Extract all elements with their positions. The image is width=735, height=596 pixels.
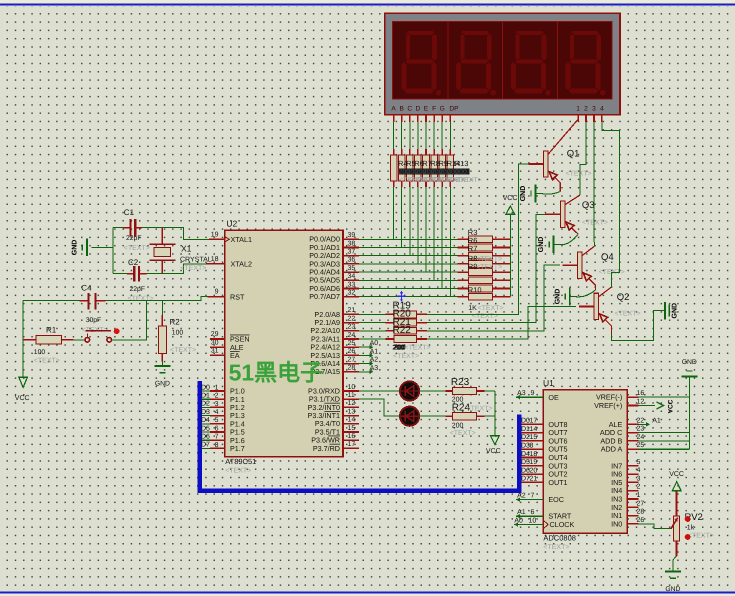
svg-text:12: 12 xyxy=(348,400,356,407)
R2 labels xyxy=(170,318,197,355)
wire segment A to resistor xyxy=(393,122,395,149)
wire C2 to XTAL2 xyxy=(146,264,206,274)
svg-text:D0: D0 xyxy=(201,384,210,391)
ground (Q2) xyxy=(665,302,679,320)
crystal X1 xyxy=(150,228,176,274)
svg-text:AT89C51: AT89C51 xyxy=(225,457,256,466)
XTAL1 clock marker xyxy=(225,237,229,242)
svg-text:200: 200 xyxy=(452,422,464,429)
svg-text:C: C xyxy=(407,106,412,113)
ground (Q4) xyxy=(554,288,570,306)
svg-text:A3: A3 xyxy=(517,390,526,397)
wire P0.5 row xyxy=(359,279,458,281)
svg-text:30pF: 30pF xyxy=(86,317,102,324)
svg-text:17: 17 xyxy=(348,441,356,448)
svg-text:A0: A0 xyxy=(514,518,523,525)
resistor R6 xyxy=(407,149,414,187)
wire P2.1 row xyxy=(359,322,386,324)
U1 pin stubs left xyxy=(522,424,544,482)
R19-R22 values 200 (overlapping) xyxy=(392,345,430,360)
resistor R5 pull-up xyxy=(458,277,511,284)
svg-text:<TEXT>: <TEXT> xyxy=(566,170,592,177)
resistor R8 xyxy=(423,149,430,187)
digit separator xyxy=(502,21,504,99)
svg-text:A: A xyxy=(391,106,396,113)
U2 pin numbers xyxy=(211,232,356,449)
svg-text:100: 100 xyxy=(34,349,46,356)
svg-text:VCC: VCC xyxy=(15,395,30,402)
wire P0.1 row xyxy=(359,247,458,249)
resistor R9 xyxy=(431,149,438,187)
svg-text:11: 11 xyxy=(348,392,355,399)
svg-text:U2: U2 xyxy=(226,219,237,229)
svg-text:D1: D1 xyxy=(201,393,210,400)
power VCC (RV2) xyxy=(669,471,684,491)
svg-text:D6: D6 xyxy=(201,434,210,441)
svg-text:<TEXT>: <TEXT> xyxy=(393,353,419,360)
svg-text:30: 30 xyxy=(211,339,219,346)
svg-text:OE: OE xyxy=(548,393,559,402)
svg-text:38: 38 xyxy=(348,240,356,247)
button state dot xyxy=(114,328,120,334)
U2 left pin stubs xyxy=(202,239,225,448)
resistor R3 pull-up xyxy=(458,236,511,243)
wire P0.0 row xyxy=(359,238,458,240)
VCC rail for pull-ups xyxy=(509,214,511,296)
svg-text:VCC: VCC xyxy=(486,448,501,455)
wire resistor column 4 to P0.3 row xyxy=(417,187,419,264)
svg-text:VREF(+): VREF(+) xyxy=(594,401,622,410)
svg-text:24: 24 xyxy=(637,434,645,441)
svg-text:<TEXT>: <TEXT> xyxy=(180,265,206,272)
ground (VREF) xyxy=(681,359,697,377)
wire Q2 emitter to ground xyxy=(612,311,665,341)
7-segment display panel xyxy=(393,21,613,99)
svg-text:22pF: 22pF xyxy=(126,235,142,242)
wire P3.0 to LED1 xyxy=(359,390,400,392)
svg-text:Q2: Q2 xyxy=(617,292,630,303)
bus entry labels U2 side xyxy=(201,384,210,448)
svg-text:GND: GND xyxy=(665,586,680,593)
svg-text:D4: D4 xyxy=(201,417,210,424)
svg-text:Q4: Q4 xyxy=(601,252,614,263)
svg-text:9: 9 xyxy=(531,390,535,397)
Q2 labels xyxy=(615,292,641,318)
svg-text:7: 7 xyxy=(531,493,535,500)
svg-text:U1: U1 xyxy=(543,378,554,388)
svg-text:<TEXT>: <TEXT> xyxy=(467,405,493,412)
svg-text:G: G xyxy=(440,106,445,113)
resistor R6 pull-up xyxy=(458,244,511,251)
svg-text:35: 35 xyxy=(348,265,356,272)
wire digit2 to Q3 collector xyxy=(580,122,586,195)
R19-R22 labels xyxy=(393,300,412,336)
resistor R24 xyxy=(445,413,484,420)
svg-text:D2: D2 xyxy=(201,401,210,408)
svg-text:26: 26 xyxy=(348,348,356,355)
svg-text:<TEXT>: <TEXT> xyxy=(582,219,608,226)
push button xyxy=(85,331,111,343)
wire VCC to C4/RST rail xyxy=(23,300,79,302)
wire resistor column 3 to P0.2 row xyxy=(409,187,411,256)
svg-text:VCC: VCC xyxy=(669,471,684,478)
wire R24 to VCC rail xyxy=(484,415,495,417)
resistor network TEXT placeholders (overlapping) xyxy=(399,177,482,184)
wire C1 to XTAL1 xyxy=(142,228,209,240)
LED D2 xyxy=(400,407,419,426)
resistor R19 xyxy=(386,311,428,318)
svg-text:<TEXT>: <TEXT> xyxy=(478,305,504,312)
svg-text:51黑电子: 51黑电子 xyxy=(229,360,324,386)
resistor network labels R4-R13 (overlapping) xyxy=(398,159,468,168)
svg-text:A1: A1 xyxy=(517,509,526,516)
wire Q3 emitter to ground xyxy=(554,234,579,245)
capacitor C1 xyxy=(123,219,142,237)
digit 4 segments xyxy=(565,30,605,95)
svg-text:14: 14 xyxy=(348,417,356,424)
wire P2.2 row xyxy=(359,330,386,332)
wire P2.5 net label xyxy=(359,354,370,356)
svg-text:<TEXT>: <TEXT> xyxy=(450,430,476,437)
svg-text:R13: R13 xyxy=(455,159,469,168)
IC U2 AT89C51 xyxy=(225,230,343,456)
U1 clock marker xyxy=(543,520,548,528)
display digit pins xyxy=(578,115,602,122)
pull-up labels xyxy=(468,228,504,320)
7-segment display DS1 bezel xyxy=(385,13,620,115)
svg-text:Q3: Q3 xyxy=(582,200,595,211)
potentiometer RV2 xyxy=(671,491,680,556)
wire C1-C2 junction xyxy=(112,228,114,274)
svg-text:22: 22 xyxy=(348,315,356,322)
resistor R23 xyxy=(445,387,484,394)
wire R22 to Q2 base xyxy=(427,307,576,340)
svg-text:XTAL2: XTAL2 xyxy=(231,260,252,269)
svg-text:10: 10 xyxy=(348,384,356,391)
svg-text:4: 4 xyxy=(637,467,641,474)
wire P0.3 row xyxy=(359,263,458,265)
svg-text:D3: D3 xyxy=(201,409,210,416)
wire P0.7 row xyxy=(359,296,458,298)
svg-text:32: 32 xyxy=(348,290,356,297)
wire resistor column 6 to P0.5 row xyxy=(433,187,435,280)
svg-text:1K: 1K xyxy=(468,305,477,312)
wire XTAL1 rail xyxy=(113,227,123,229)
resistor R10 pull-up xyxy=(458,285,511,292)
digit 3 segments xyxy=(510,30,550,95)
svg-text:D: D xyxy=(416,106,421,113)
svg-text:XTAL1: XTAL1 xyxy=(231,235,252,244)
svg-text:R7: R7 xyxy=(468,244,478,253)
svg-text:GND: GND xyxy=(682,359,697,366)
RV2 probe dot bottom xyxy=(685,534,691,540)
svg-text:200: 200 xyxy=(455,169,467,176)
svg-text:P1.7: P1.7 xyxy=(230,444,245,453)
bus P1 to ADC data xyxy=(200,381,519,491)
svg-text:6: 6 xyxy=(531,509,535,516)
power VCC (reset) xyxy=(15,301,30,402)
wire P0.6 row xyxy=(359,288,458,290)
svg-text:<TEXT>: <TEXT> xyxy=(456,177,482,184)
svg-text:33: 33 xyxy=(348,281,356,288)
svg-text:<TEXT>: <TEXT> xyxy=(688,533,714,540)
svg-text:D7: D7 xyxy=(201,442,210,449)
svg-text:VCC: VCC xyxy=(668,399,675,413)
U1 net label CLOCK xyxy=(514,518,543,527)
svg-text:18: 18 xyxy=(211,256,219,263)
svg-text:A2: A2 xyxy=(517,493,526,500)
svg-text:ADD A: ADD A xyxy=(601,445,623,454)
U1 pin numbers right xyxy=(637,390,645,524)
svg-text:B: B xyxy=(399,106,404,113)
svg-text:<TEXT>: <TEXT> xyxy=(476,256,502,263)
svg-text:13: 13 xyxy=(348,408,356,415)
wire Q4 emitter to ground xyxy=(570,290,596,297)
digit 2 segments xyxy=(456,30,496,95)
ground (Q1) xyxy=(520,185,536,203)
U2 right pin labels xyxy=(308,235,340,453)
U1 left pin labels xyxy=(548,393,574,529)
svg-text:25: 25 xyxy=(348,340,356,347)
svg-text:<TEXT>: <TEXT> xyxy=(170,347,196,354)
wire VREF+ net VCC xyxy=(638,399,674,413)
svg-text:<TEXT>: <TEXT> xyxy=(405,345,431,352)
svg-text:Q1: Q1 xyxy=(567,149,580,160)
wire C2 rail xyxy=(113,273,127,275)
svg-text:19: 19 xyxy=(211,232,219,239)
wire digit3 to Q4 collector xyxy=(593,122,595,246)
svg-text:16: 16 xyxy=(637,390,645,397)
svg-text:<TEXT>: <TEXT> xyxy=(128,296,154,303)
svg-text:12: 12 xyxy=(637,399,645,406)
wire VREF- to ground xyxy=(638,396,689,398)
svg-text:P0.7/AD7: P0.7/AD7 xyxy=(309,292,340,301)
resistor network values 200 (overlapping) xyxy=(399,168,470,176)
wire resistor column 2 to P0.1 row xyxy=(401,187,403,247)
transistor Q3 xyxy=(545,195,580,234)
svg-text:IN0: IN0 xyxy=(611,519,622,528)
wire digit4 to Q2 collector xyxy=(602,122,619,287)
svg-text:21: 21 xyxy=(348,307,356,314)
wire P0.2 row xyxy=(359,255,458,257)
RV2 labels xyxy=(685,512,714,539)
svg-text:<TEXT>: <TEXT> xyxy=(615,311,641,318)
resistor R9 pull-up xyxy=(458,269,511,276)
svg-text:GND: GND xyxy=(671,303,678,319)
wire rail to R2 xyxy=(161,301,163,315)
svg-text:28: 28 xyxy=(348,365,356,372)
wire segment F to resistor xyxy=(433,122,435,149)
wire digit1 to Q1 collector xyxy=(577,115,579,120)
ground (R2) xyxy=(154,366,170,388)
svg-text:100: 100 xyxy=(172,330,184,337)
svg-text:25: 25 xyxy=(637,442,645,449)
R23 labels xyxy=(451,377,470,403)
top border line xyxy=(0,4,735,6)
svg-text:36: 36 xyxy=(348,257,356,264)
selection cross marker xyxy=(398,291,406,302)
svg-text:R23: R23 xyxy=(451,377,470,388)
wire LED1 to R23 xyxy=(419,390,445,392)
wire R21 to Q4 base xyxy=(427,265,560,331)
svg-text:C2: C2 xyxy=(128,258,139,267)
digit 1 segments xyxy=(401,30,441,95)
ground (Q3) xyxy=(538,236,554,254)
svg-text:R22: R22 xyxy=(393,325,412,336)
wire P2.6 net label xyxy=(359,363,370,365)
svg-text:VCC: VCC xyxy=(503,195,518,202)
wire junction to ground xyxy=(92,246,113,248)
resistor R13 xyxy=(447,149,454,187)
resistor R2 xyxy=(158,315,166,362)
svg-text:C4: C4 xyxy=(81,284,92,293)
wire P0.4 row xyxy=(359,271,458,273)
ground (crystal) xyxy=(71,239,87,257)
R24 labels xyxy=(450,402,493,437)
power VCC (pull-up rail) xyxy=(503,195,518,214)
display segment labels ABCDEFG DP xyxy=(391,106,459,113)
svg-text:R2: R2 xyxy=(170,318,181,327)
transistor Q1 xyxy=(528,115,578,192)
R1 labels xyxy=(34,326,60,365)
svg-text:<TEXT>: <TEXT> xyxy=(124,245,150,252)
svg-text:RST: RST xyxy=(230,292,245,301)
svg-text:5: 5 xyxy=(637,459,641,466)
svg-text:R10: R10 xyxy=(468,286,482,295)
resistor R7 xyxy=(415,149,422,187)
svg-text:F: F xyxy=(432,106,436,113)
bottom border line xyxy=(0,591,735,593)
svg-text:26: 26 xyxy=(637,517,645,524)
wire R2 to ground xyxy=(161,362,163,367)
digit separator xyxy=(556,21,558,99)
resistor R1 xyxy=(23,336,73,344)
transistor Q2 xyxy=(579,287,612,335)
svg-text:29: 29 xyxy=(211,331,219,338)
U1 net label OE xyxy=(516,390,543,399)
U2 left pin labels xyxy=(230,235,252,453)
svg-text:CLOCK: CLOCK xyxy=(550,520,575,529)
wire resistor column 8 to P0.7 row xyxy=(449,187,451,297)
wire P2.7 net label xyxy=(359,371,370,373)
U1 net label EOC xyxy=(516,493,543,502)
digit separator xyxy=(447,21,449,99)
svg-text:C1: C1 xyxy=(124,208,135,217)
C2 labels xyxy=(128,258,154,303)
wire Q1 emitter to ground xyxy=(536,192,561,195)
svg-text:ADC0808: ADC0808 xyxy=(543,533,576,542)
svg-text:23: 23 xyxy=(348,324,356,331)
transistor Q4 xyxy=(562,246,595,290)
wire segment C to resistor xyxy=(409,122,411,149)
wire P3.1 to LED2 xyxy=(359,399,400,416)
svg-text:GND: GND xyxy=(554,289,561,305)
svg-text:24: 24 xyxy=(348,332,356,339)
svg-text:39: 39 xyxy=(348,232,356,239)
svg-text:23: 23 xyxy=(637,426,645,433)
wire VCC rail (LED) xyxy=(494,391,496,436)
svg-text:2: 2 xyxy=(637,484,641,491)
svg-text:A2: A2 xyxy=(370,357,379,364)
ground (RV2) xyxy=(665,572,681,594)
svg-text:<TEXT>: <TEXT> xyxy=(476,264,502,271)
wire R1 to button xyxy=(74,339,86,341)
svg-text:D5: D5 xyxy=(201,425,210,432)
LED D1 xyxy=(400,381,419,400)
svg-text:15: 15 xyxy=(348,425,356,432)
svg-text:<TEXT>: <TEXT> xyxy=(34,358,60,365)
svg-text:CRYSTAL: CRYSTAL xyxy=(180,257,212,264)
wire P2.0 row xyxy=(359,313,386,315)
svg-text:<TEXT>: <TEXT> xyxy=(543,544,569,551)
resistor R21 xyxy=(386,327,428,334)
svg-text:A1: A1 xyxy=(652,417,661,424)
svg-text:1: 1 xyxy=(637,492,641,499)
svg-text:4: 4 xyxy=(600,106,604,113)
X1 labels xyxy=(180,244,212,272)
svg-text:GND: GND xyxy=(155,381,170,388)
power VCC (LED) xyxy=(486,436,501,455)
IC U1 ADC0808 xyxy=(543,390,627,533)
svg-text:R1: R1 xyxy=(46,326,57,335)
wire RV2 to ground xyxy=(673,556,677,571)
svg-text:OUT1: OUT1 xyxy=(548,478,567,487)
U1 net label START xyxy=(516,509,543,518)
U1 right pin stubs xyxy=(627,397,638,524)
svg-text:<TEXT>: <TEXT> xyxy=(225,468,251,475)
resistor R20 xyxy=(386,319,428,326)
wire R20 to Q3 base xyxy=(427,214,545,322)
svg-text:E: E xyxy=(424,106,429,113)
U1 right pin labels xyxy=(594,393,622,529)
svg-text:GND: GND xyxy=(520,186,527,202)
svg-text:A1: A1 xyxy=(370,348,379,355)
RV2 probe dot top xyxy=(685,516,691,522)
svg-text:22pF: 22pF xyxy=(130,286,146,293)
svg-text:P3.7/RD: P3.7/RD xyxy=(313,444,340,453)
wire resistor column 5 to P0.4 row xyxy=(425,187,427,272)
Q4 labels xyxy=(599,252,625,276)
display digit labels 1234 xyxy=(576,106,604,113)
resistor R7 pull-up xyxy=(458,252,511,259)
svg-text:9: 9 xyxy=(215,289,219,296)
svg-text:27: 27 xyxy=(637,500,645,507)
svg-text:X1: X1 xyxy=(181,244,192,254)
resistor R8 pull-up xyxy=(458,261,511,268)
resistor R22 xyxy=(386,336,428,343)
svg-text:3: 3 xyxy=(592,106,596,113)
svg-text:37: 37 xyxy=(348,249,356,256)
svg-text:A0: A0 xyxy=(370,340,379,347)
wire R19 to Q1 base xyxy=(427,164,528,314)
wire P2.3 row xyxy=(359,338,386,340)
svg-text:2: 2 xyxy=(584,106,588,113)
wire ADD pins to ground rail xyxy=(638,377,689,449)
svg-text:GND: GND xyxy=(71,240,78,256)
display segment pins xyxy=(394,115,451,122)
wire resistor column 7 to P0.6 row xyxy=(441,187,443,288)
wire segment G to resistor xyxy=(441,122,443,149)
svg-text:GND: GND xyxy=(538,237,545,253)
U2 right pin stubs xyxy=(343,239,359,448)
capacitor C2 xyxy=(127,266,147,282)
svg-text:DP: DP xyxy=(449,106,459,113)
svg-text:34: 34 xyxy=(348,273,356,280)
svg-text:16: 16 xyxy=(348,433,356,440)
svg-text:1: 1 xyxy=(576,106,580,113)
wire segment E to resistor xyxy=(425,122,427,149)
svg-text:1k: 1k xyxy=(687,524,695,532)
